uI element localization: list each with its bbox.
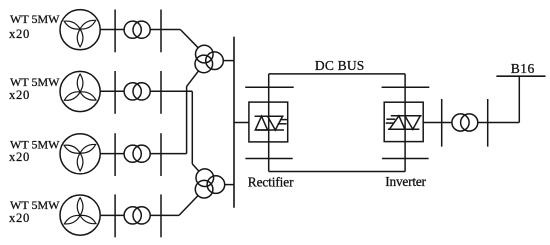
transformer T3 circle 1 bbox=[124, 145, 141, 162]
transformer T2 circle 1 bbox=[124, 83, 141, 100]
svg-text:Inverter: Inverter bbox=[385, 174, 426, 189]
bus bar tick below inverter bbox=[382, 158, 429, 160]
wire T4 to corner bbox=[150, 214, 179, 216]
wind turbine WT1 generator circle bbox=[60, 10, 100, 50]
3-winding transformer T6 lower circle bottom-left bbox=[195, 180, 213, 198]
bus bar tick row3 right bbox=[160, 133, 162, 176]
bus bar tick above rectifier bbox=[245, 86, 294, 88]
wire WT3 to transformer bbox=[100, 153, 124, 155]
wire WT3 vertical rise bbox=[186, 86, 188, 153]
grid transformer T7 circle 1 bbox=[452, 114, 469, 131]
wire grid transformer to B16 riser bbox=[478, 122, 520, 124]
wire T1 to corner bbox=[150, 29, 180, 31]
inverter box bbox=[384, 102, 423, 141]
svg-text:B16: B16 bbox=[511, 61, 535, 76]
svg-text:DC BUS: DC BUS bbox=[315, 58, 365, 73]
rectifier thyristor triangle up bbox=[255, 116, 267, 130]
3-winding transformer T5 upper circle top-left bbox=[196, 45, 214, 63]
inverter thyristor symbol bottom line bbox=[388, 128, 420, 130]
inverter thyristor symbol top line bbox=[391, 115, 422, 117]
inverter thyristor triangle up bbox=[389, 116, 405, 130]
wire WT3 diagonal to upper 3-winding transformer bbox=[187, 71, 199, 87]
rectifier thyristor triangle down bbox=[268, 116, 283, 130]
wind turbine WT3 generator circle bbox=[60, 134, 100, 174]
bus bar tick left of grid transformer bbox=[441, 99, 443, 147]
wind turbine WT2 generator circle bbox=[60, 71, 100, 111]
3-winding transformer T6 lower circle top-left bbox=[196, 169, 214, 187]
bus bar tick row4 right bbox=[160, 194, 162, 237]
wind turbine WT4 generator circle bbox=[60, 195, 100, 235]
DC bus bottom rail bbox=[269, 171, 406, 173]
transformer T3 circle 2 bbox=[133, 145, 150, 162]
wire T5 to main bus bbox=[223, 60, 234, 62]
wire WT1 diagonal to upper 3-winding transformer bbox=[180, 30, 198, 48]
WT1 rotor blades bbox=[63, 18, 97, 47]
main collector bus bbox=[233, 37, 235, 208]
3-winding transformer T6 lower circle right bbox=[207, 176, 225, 194]
inverter center vertical wire bbox=[404, 74, 406, 172]
bus bar tick right of grid transformer bbox=[487, 99, 489, 147]
bus bar tick row2 left bbox=[114, 71, 116, 114]
rectifier box bbox=[249, 102, 288, 142]
WT2 rotor blades bbox=[63, 74, 97, 103]
wire WT2 to transformer bbox=[100, 90, 124, 92]
inverter gate line upper bbox=[386, 118, 395, 120]
svg-text:x20: x20 bbox=[9, 211, 30, 225]
rectifier thyristor symbol bottom line bbox=[256, 129, 284, 131]
svg-text:WT 5MW: WT 5MW bbox=[10, 198, 60, 212]
bus bar tick row1 left bbox=[114, 10, 116, 53]
wire riser to B16 bus bbox=[518, 76, 520, 122]
bus bar tick above inverter bbox=[382, 86, 430, 88]
transformer T4 circle 2 bbox=[133, 207, 150, 224]
svg-text:WT 5MW: WT 5MW bbox=[10, 75, 60, 89]
wire WT4 diagonal to lower 3-winding transformer bbox=[179, 196, 198, 216]
transformer T4 circle 1 bbox=[124, 207, 141, 224]
bus bar tick row3 left bbox=[114, 133, 116, 176]
svg-text:x20: x20 bbox=[9, 88, 30, 102]
bus bar tick row1 right bbox=[160, 10, 162, 53]
wire T3 to corner bbox=[150, 153, 186, 155]
3-winding transformer T5 upper circle right bbox=[206, 52, 224, 70]
grid transformer T7 circle 2 bbox=[461, 114, 478, 131]
wire WT2 diagonal to lower 3-winding transformer bbox=[192, 164, 199, 171]
B16 bus bar bbox=[496, 75, 545, 77]
svg-text:x20: x20 bbox=[9, 27, 30, 41]
bus bar tick below rectifier bbox=[245, 158, 292, 160]
wire WT1 to transformer bbox=[100, 29, 124, 31]
rectifier center vertical wire bbox=[268, 74, 270, 172]
wire main bus to rectifier bbox=[234, 122, 249, 124]
wire inverter to grid transformer bbox=[423, 122, 452, 124]
WT4 rotor blades bbox=[63, 198, 97, 227]
wire T2 to corner bbox=[150, 90, 192, 92]
inverter gate line lower bbox=[386, 122, 394, 124]
rectifier gate line upper bbox=[280, 119, 287, 121]
transformer T2 circle 2 bbox=[133, 83, 150, 100]
bus bar tick row4 left bbox=[114, 194, 116, 237]
bus bar tick row2 right bbox=[160, 71, 162, 114]
wire T6 to main bus bbox=[225, 184, 234, 186]
wire WT2 vertical drop bbox=[191, 91, 193, 164]
svg-text:Rectifier: Rectifier bbox=[248, 174, 294, 189]
transformer T1 circle 2 bbox=[133, 21, 150, 38]
rectifier thyristor symbol top line bbox=[255, 115, 284, 117]
3-winding transformer T5 upper circle bottom-left bbox=[195, 55, 213, 73]
svg-text:WT 5MW: WT 5MW bbox=[10, 12, 60, 26]
inverter thyristor triangle down bbox=[405, 116, 420, 130]
wire WT4 to transformer bbox=[100, 214, 124, 216]
transformer T1 circle 1 bbox=[124, 21, 141, 38]
svg-text:x20: x20 bbox=[9, 150, 30, 164]
WT3 rotor blades bbox=[63, 142, 97, 171]
rectifier gate line lower bbox=[278, 123, 287, 125]
DC bus top rail bbox=[269, 73, 406, 75]
